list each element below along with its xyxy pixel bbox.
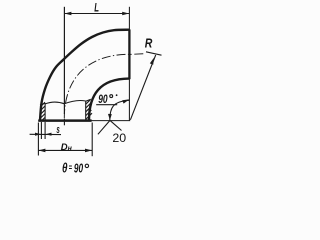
leader line for 20 (right leg) — [110, 120, 122, 130]
svg-text:R: R — [145, 37, 153, 51]
bottom face line (thick part) — [38, 119, 91, 122]
arrowhead angular arc top — [122, 99, 129, 103]
degree circle of 90 label — [110, 95, 113, 98]
arrowhead Dn right — [85, 149, 92, 153]
centerline arc (dash-dot pipe axis) — [64, 54, 129, 118]
bore inner wavy edge — [45, 100, 86, 103]
angular dimension arc 90 — [110, 100, 130, 120]
dimension s extension lines — [40, 122, 42, 139]
left wall cut top edge — [40, 103, 45, 105]
arrowhead L right — [122, 12, 129, 16]
arrowhead Dn left — [38, 149, 45, 153]
svg-text:20: 20 — [112, 131, 126, 145]
arrowhead s right — [45, 133, 51, 136]
dimension L line — [64, 13, 129, 15]
svg-text:90: 90 — [98, 92, 108, 106]
inner arc of elbow — [89, 79, 129, 121]
arrowhead angular arc bottom — [108, 114, 112, 120]
hatching right wall — [86, 100, 92, 120]
centerline overshoot right — [130, 53, 143, 56]
dimension s line — [30, 133, 61, 135]
right end face line (thin full) — [128, 7, 130, 121]
speck near 90 label — [116, 94, 118, 96]
right wall cut top edge — [86, 99, 91, 101]
svg-text:s: s — [56, 124, 59, 136]
leader line for 20 (left leg) — [98, 120, 110, 134]
degree circle of caption — [85, 164, 88, 167]
svg-text:90: 90 — [74, 161, 84, 176]
right end face line (thick part) — [128, 29, 130, 79]
radius R label shelf — [146, 52, 162, 55]
hatching left wall — [40, 102, 45, 120]
label 90 underline — [96, 104, 117, 106]
svg-text:θ: θ — [62, 160, 68, 176]
outer arc of elbow — [40, 30, 129, 121]
svg-text:L: L — [94, 0, 99, 14]
bottom face line (thin to vertex) — [38, 120, 130, 122]
svg-text:=: = — [69, 163, 73, 173]
arrowhead R leader — [150, 58, 154, 65]
radius R leader line — [130, 55, 155, 120]
dimension Dn extension lines — [37, 123, 39, 156]
dimension Dn line — [38, 149, 92, 151]
axis extension line left (L datum) — [63, 7, 65, 114]
right wall bore edge — [85, 101, 87, 120]
arrowhead s left — [35, 133, 41, 136]
left wall bore edge — [44, 103, 46, 120]
arrowhead L left — [64, 12, 71, 16]
axis line through section crossing face — [63, 119, 65, 126]
